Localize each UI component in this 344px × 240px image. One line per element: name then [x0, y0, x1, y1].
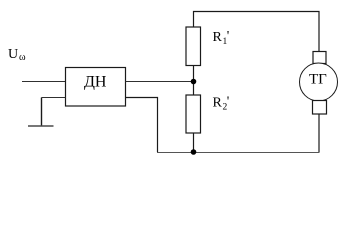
svg-text:ТГ: ТГ [309, 72, 327, 88]
wire ground branch to ДН [42, 97, 66, 99]
wire input to ДН [22, 81, 66, 83]
wire bottom rail [157, 152, 320, 154]
label R1' [213, 29, 230, 47]
svg-text:R: R [213, 96, 223, 111]
svg-text:ω: ω [19, 52, 26, 63]
resistor R1' [186, 27, 201, 66]
wire ДН output to node A [126, 81, 194, 83]
svg-text:': ' [227, 95, 230, 110]
svg-text:R: R [213, 30, 223, 45]
svg-text:ДН: ДН [84, 74, 107, 91]
label R2' [213, 95, 230, 113]
tachogenerator TG body [300, 63, 338, 101]
resistor R2' [186, 95, 201, 133]
svg-text:': ' [227, 29, 230, 44]
node Uω input label [8, 47, 26, 63]
tachogenerator TG lower terminal [313, 101, 327, 115]
wire TG lower terminal to bottom rail [318, 114, 320, 152]
tachogenerator TG upper terminal [313, 52, 326, 64]
wire top rail [194, 12, 320, 52]
ground [28, 98, 54, 127]
svg-text:U: U [8, 47, 18, 62]
wire R2 bottom to node B [193, 133, 195, 152]
wire ДН lower output down to bottom rail [126, 98, 158, 153]
node B junction [191, 149, 197, 155]
block U1 ДН (voltage divider) [66, 68, 126, 107]
node A junction [191, 79, 197, 85]
wire R1 bottom to node A [193, 66, 195, 96]
